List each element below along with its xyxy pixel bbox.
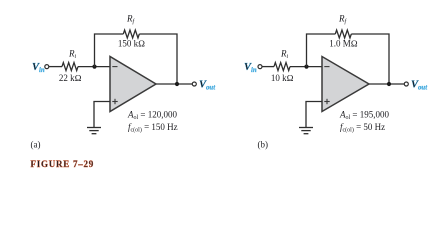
wire input to Ri (b): [262, 66, 274, 68]
svg-text:Rf: Rf: [338, 14, 348, 26]
ground (b): [299, 128, 313, 134]
wire output (b): [369, 83, 404, 85]
resistor Rf (a) 150 kOhm: [123, 30, 139, 38]
input terminal (b): [258, 65, 262, 69]
op-amp A2: [322, 57, 369, 112]
wire feedback right/down (b): [351, 34, 389, 84]
svg-text:fc(ol) = 150 Hz: fc(ol) = 150 Hz: [128, 122, 178, 134]
wire noninverting input to ground (a): [94, 102, 111, 128]
svg-text:(b): (b): [258, 140, 269, 150]
svg-text:10 kΩ: 10 kΩ: [271, 73, 294, 83]
svg-text:150 kΩ: 150 kΩ: [118, 38, 145, 48]
junction output node (b): [387, 82, 391, 86]
op-amp A1: [110, 57, 156, 112]
input terminal (a): [45, 65, 49, 69]
svg-text:fc(ol) = 50 Hz: fc(ol) = 50 Hz: [340, 122, 385, 134]
wire feedback left/top (b): [307, 34, 336, 67]
wire noninverting input to ground (b): [306, 102, 323, 128]
svg-text:Ri: Ri: [68, 49, 77, 61]
svg-text:Vin: Vin: [244, 62, 257, 74]
svg-text:(a): (a): [31, 140, 41, 150]
wire output (a): [156, 83, 192, 85]
resistor Ri (b) 10 kOhm: [274, 63, 290, 71]
pin plus (a): [112, 99, 117, 104]
output terminal (b): [404, 82, 408, 86]
pin minus (a): [112, 66, 117, 68]
junction inverting node (b): [304, 65, 308, 69]
svg-text:Vin: Vin: [32, 62, 45, 74]
resistor Ri (a) 22 kOhm: [62, 63, 78, 71]
resistor Rf (b) 1.0 MOhm: [335, 30, 351, 38]
wire feedback right/down (a): [139, 34, 177, 84]
svg-text:Rf: Rf: [126, 14, 136, 26]
svg-text:Vout: Vout: [411, 80, 428, 92]
svg-text:Aol = 195,000: Aol = 195,000: [339, 109, 389, 121]
ground (a): [87, 128, 101, 134]
wire Ri to op-amp inverting input (a): [78, 66, 111, 68]
output terminal (a): [192, 82, 196, 86]
svg-text:Ri: Ri: [280, 49, 289, 61]
svg-text:22 kΩ: 22 kΩ: [59, 73, 82, 83]
pin plus (b): [324, 99, 329, 104]
junction inverting node (a): [92, 65, 96, 69]
svg-text:Aol = 120,000: Aol = 120,000: [127, 109, 177, 121]
svg-text:FIGURE 7–29: FIGURE 7–29: [31, 159, 95, 169]
wire feedback left/top (a): [95, 34, 124, 67]
wire input to Ri (a): [49, 66, 62, 68]
svg-text:Vout: Vout: [199, 80, 216, 92]
pin minus (b): [324, 66, 329, 68]
junction output node (a): [175, 82, 179, 86]
svg-text:1.0 MΩ: 1.0 MΩ: [329, 38, 358, 48]
wire Ri to op-amp inverting input (b): [290, 66, 323, 68]
